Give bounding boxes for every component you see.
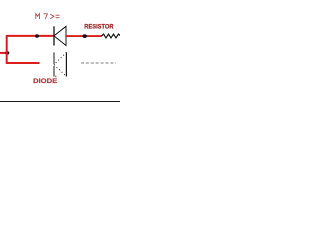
wire: bottom horizontal stub <box>6 62 40 64</box>
node C junction dot <box>82 34 87 38</box>
resistor zigzag body (clipped at right edge) <box>101 34 121 38</box>
dashed gray guide line <box>81 62 116 64</box>
wire: top horizontal run to diode D1 anode side <box>6 35 54 37</box>
wire: vertical left riser <box>6 36 8 64</box>
ghost diode DIODE cathode bar <box>53 52 55 76</box>
svg-text:RESISTOR: RESISTOR <box>84 23 113 30</box>
diode D1 value label (tiny red text) <box>36 14 60 19</box>
diode D1 triangle (apex at cathode bar, base right) <box>54 26 66 45</box>
svg-text:DIODE: DIODE <box>33 78 58 85</box>
sheet frame border line (bottom) <box>0 101 120 103</box>
wire: left stub from sheet edge to node A <box>0 52 7 54</box>
diode D1 cathode bar <box>53 26 55 45</box>
node A junction dot <box>5 51 9 54</box>
ghost diode DIODE dotted triangle sides <box>54 52 66 76</box>
label origin tick above DIODE <box>55 76 57 78</box>
wire: diode D1 to resistor <box>66 35 102 37</box>
ghost diode DIODE base bar <box>65 52 67 76</box>
node B junction dot on top wire <box>35 34 39 38</box>
